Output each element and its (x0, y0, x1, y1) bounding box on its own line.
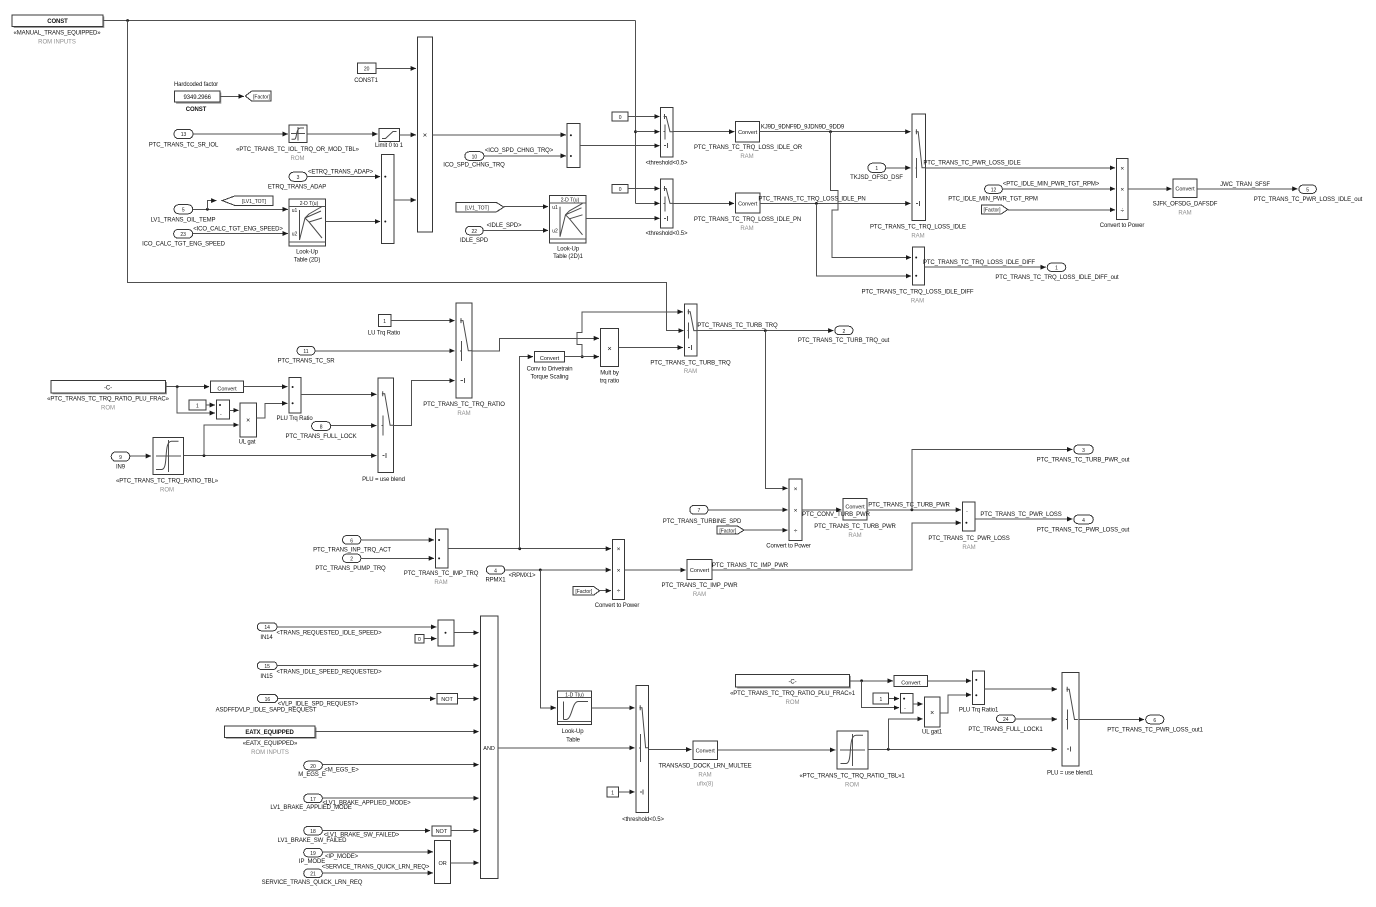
svg-text:«MANUAL_TRANS_EQUIPPED»: «MANUAL_TRANS_EQUIPPED» (14, 31, 102, 37)
svg-text:<IP_MODE>: <IP_MODE> (325, 854, 359, 860)
sum (requested idle) (438, 620, 454, 646)
wire port24 to blend1 mid (1015, 718, 1057, 720)
lookup ROM PTC_TRANS_TC_IOL_TRQ_OR_MOD_TBL (236, 125, 360, 162)
constant 20 CONST1 (354, 63, 378, 84)
svg-text:÷: ÷ (617, 588, 621, 595)
wire switch2 to Convert2 (673, 202, 734, 204)
goto tag [LV1_TOT] (222, 196, 273, 206)
Convert (plu frac) (211, 381, 244, 393)
svg-text:RAM: RAM (693, 592, 706, 598)
wire Conv2DT out to Mult bottom (565, 356, 600, 358)
svg-text:8: 8 (320, 425, 323, 431)
svg-text:AND: AND (483, 746, 495, 752)
wire factor to CtP divide (1008, 209, 1115, 211)
wire Convert7 out to PLU Trq Ratio1 top (928, 680, 972, 682)
wire RAM switch out to Mult top (472, 338, 599, 351)
wire UL gat out to PLU Trq Ratio (256, 403, 287, 418)
wire 0 to switch1 (628, 116, 659, 118)
svg-text:20: 20 (310, 764, 316, 770)
svg-text:[LV1_TOT]: [LV1_TOT] (242, 199, 267, 205)
svg-text:Torque Scaling: Torque Scaling (530, 375, 568, 381)
wire port17 to AND (322, 797, 478, 799)
svg-text:SJFK_OFSDG_DAFSDF: SJFK_OFSDG_DAFSDF (1153, 202, 1218, 208)
wire port11 to RAM switch mid (315, 350, 455, 352)
svg-text:Convert: Convert (540, 356, 560, 362)
svg-text:2-D T(u): 2-D T(u) (561, 197, 580, 203)
svg-text:UL gat1: UL gat1 (922, 729, 943, 735)
svg-text:<TRANS_IDLE_SPEED_REQUESTED>: <TRANS_IDLE_SPEED_REQUESTED> (276, 670, 382, 676)
svg-text:TRANSASD_DOCK_LRN_MULTEE: TRANSASD_DOCK_LRN_MULTEE (658, 764, 751, 770)
input port 1 TKJSD_OFSD_DSF (850, 163, 903, 181)
wire ROM tbl out to blend bottom with branch to UL gat (184, 455, 377, 457)
svg-text:PTC_TRANS_INP_TRQ_ACT: PTC_TRANS_INP_TRQ_ACT (313, 548, 391, 554)
wire port13 to ROM table (193, 133, 288, 135)
svg-text:RPMX1: RPMX1 (485, 577, 506, 583)
Convert TRANSASD_DOCK_LRN_MULTEE RAM (658, 741, 751, 788)
wire NOT2 to AND (451, 830, 479, 832)
wire Convert5 out to subtract plus, label (712, 523, 961, 570)
svg-text:4: 4 (1082, 518, 1085, 524)
svg-text:RAM: RAM (911, 234, 924, 240)
wire Convert2 to IDLE switch bottom, label (760, 202, 911, 204)
svg-text:<SERVICE_TRANS_QUICK_LRN_REQ>: <SERVICE_TRANS_QUICK_LRN_REQ> (322, 865, 430, 871)
svg-text:1: 1 (611, 790, 614, 796)
subtract PTC_TRANS_TC_PWR_LOSS RAM (928, 502, 1009, 551)
svg-text:×: × (617, 568, 621, 575)
svg-text:<threshold<0.5>: <threshold<0.5> (646, 160, 688, 166)
constant 1 (UL1) (873, 693, 888, 704)
wire port15 to AND (277, 665, 479, 667)
svg-text:PTC_TRANS_TC_IMP_PWR: PTC_TRANS_TC_IMP_PWR (712, 563, 789, 569)
sum PLU Trq Ratio1 (959, 671, 999, 713)
svg-text:u1: u1 (552, 205, 558, 211)
svg-text:0: 0 (619, 115, 622, 121)
svg-text:PTC_TRANS_TC_TRQ_LOSS_IDLE_PN: PTC_TRANS_TC_TRQ_LOSS_IDLE_PN (758, 196, 865, 202)
svg-text:Table (2D): Table (2D) (294, 257, 321, 263)
wire CtP to Convert SJFK (1128, 188, 1171, 190)
wire -C- to Convert and branch to sum (166, 386, 210, 388)
svg-text:<threshold<0.5>: <threshold<0.5> (622, 817, 664, 823)
Convert (plu frac 1) (894, 675, 928, 686)
svg-text:trq ratio: trq ratio (600, 379, 620, 385)
svg-text:×: × (246, 418, 250, 425)
product Convert to Power (idle) (1100, 158, 1145, 228)
wire CtP turb to Convert4, label (802, 509, 841, 511)
svg-text:LU Trq Ratio: LU Trq Ratio (368, 331, 401, 337)
svg-text:PTC_TRANS_TC_PWR_LOSS_out1: PTC_TRANS_TC_PWR_LOSS_out1 (1107, 727, 1203, 733)
wire -C-1 to Convert7 with branch to sum (849, 680, 892, 682)
svg-text:PLU Trq Ratio: PLU Trq Ratio (276, 416, 313, 422)
svg-text:Convert: Convert (738, 130, 758, 136)
input port 21 (262, 865, 430, 886)
svg-text:7: 7 (698, 508, 701, 514)
wire NOT1 to AND (457, 698, 478, 700)
wire blend1 out to output port 6 (1079, 719, 1144, 721)
switch threshold<0.5 (lower) (646, 179, 688, 237)
svg-text:PTC_TRANS_TC_PWR_LOSS: PTC_TRANS_TC_PWR_LOSS (980, 512, 1061, 518)
input port 11 (278, 346, 336, 364)
svg-text:PTC_TRANS_TC_TRQ_RATIO: PTC_TRANS_TC_TRQ_RATIO (423, 402, 505, 408)
wire DIFF out to output port 1, label (925, 266, 1046, 268)
svg-text:Convert to Power: Convert to Power (595, 603, 640, 609)
svg-text:-C-: -C- (789, 679, 797, 685)
svg-text:u1: u1 (292, 208, 298, 214)
wire 20 to product (376, 67, 416, 69)
svg-text:6: 6 (1153, 718, 1156, 724)
merge/product block (567, 124, 580, 168)
svg-text:23: 23 (180, 232, 186, 238)
input port 3 (268, 172, 326, 191)
wire port16 to NOT1 (278, 698, 436, 700)
goto tag [Factor] (245, 91, 271, 101)
svg-text:<ICO_CALC_TGT_ENG_SPEED>: <ICO_CALC_TGT_ENG_SPEED> (193, 227, 283, 233)
svg-text:PTC_TRANS_TC_TURB_PWR: PTC_TRANS_TC_TURB_PWR (814, 524, 896, 530)
output port 5 (1254, 185, 1363, 203)
wire riser with hop to TURB switch top (577, 312, 683, 357)
svg-text:ufix(8): ufix(8) (697, 782, 714, 788)
svg-text:21: 21 (310, 872, 316, 878)
svg-text:<threshold<0.5>: <threshold<0.5> (646, 231, 688, 237)
wire 1 to sumF (889, 698, 900, 700)
from tag [Factor] (imp) (573, 586, 600, 595)
lookup table (2D) #1 (289, 199, 325, 263)
constant 9349.2966 (174, 82, 221, 113)
input port 15 (257, 662, 382, 680)
svg-text:IDLE_SPD: IDLE_SPD (460, 238, 489, 244)
svg-text:ICO_SPD_CHNG_TRQ: ICO_SPD_CHNG_TRQ (443, 163, 505, 169)
svg-text:×: × (617, 546, 621, 553)
svg-text:Look-Up: Look-Up (562, 729, 585, 735)
wire port19 to OR (322, 851, 433, 853)
logic NOT (vlp) (437, 693, 457, 704)
svg-text:1: 1 (875, 166, 878, 172)
svg-text:16: 16 (265, 697, 271, 703)
svg-text:3: 3 (297, 175, 300, 181)
svg-text:ROM: ROM (101, 405, 115, 411)
svg-text:Convert: Convert (690, 568, 710, 574)
input port 19 (299, 848, 359, 865)
svg-text:ETRQ_TRANS_ADAP: ETRQ_TRANS_ADAP (268, 185, 326, 191)
svg-text:9349.2966: 9349.2966 (184, 95, 212, 101)
wire sum out to AND (454, 632, 479, 634)
product Convert to Power (imp) (595, 539, 640, 609)
svg-text:Look-Up: Look-Up (296, 250, 319, 256)
svg-text:RAM: RAM (434, 580, 447, 586)
output port 6 (1107, 715, 1203, 733)
svg-text:<TRANS_REQUESTED_IDLE_SPEED>: <TRANS_REQUESTED_IDLE_SPEED> (276, 631, 382, 637)
svg-text:PTC_TRANS_TC_TURB_TRQ: PTC_TRANS_TC_TURB_TRQ (697, 323, 778, 329)
constant 0 (idle spd) (415, 634, 424, 643)
sum block A (382, 155, 394, 244)
constant EATX_EQUIPPED (224, 726, 316, 756)
svg-text:5: 5 (182, 208, 185, 214)
svg-text:PLU Trq Ratio1: PLU Trq Ratio1 (959, 707, 999, 713)
product UL gat1 (922, 697, 943, 736)
svg-text:«PTC_TRANS_TC_IOL_TRQ_OR_MOD_T: «PTC_TRANS_TC_IOL_TRQ_OR_MOD_TBL» (236, 147, 360, 153)
svg-text:IN15: IN15 (260, 674, 273, 680)
svg-text:PTC_TRANS_TC_PWR_LOSS_out: PTC_TRANS_TC_PWR_LOSS_out (1037, 528, 1130, 534)
svg-text:ROM: ROM (786, 700, 800, 706)
wire PLU Trq Ratio out to blend top (301, 393, 376, 395)
svg-text:RAM: RAM (740, 154, 753, 160)
Convert PTC_TRANS_TC_TURB_PWR RAM (802, 499, 896, 539)
wire port20 to AND (322, 764, 478, 766)
svg-text:CONST: CONST (186, 107, 207, 113)
wire sum out to CtP imp, branch riser to Conv2DT (448, 548, 611, 550)
svg-text:5: 5 (1306, 188, 1309, 194)
svg-text:×: × (930, 710, 934, 717)
svg-text:6: 6 (350, 538, 353, 544)
wire CtP imp to Convert5 (625, 569, 686, 571)
wire port8 to blend mid (331, 425, 377, 427)
constant 1 (UL) (189, 400, 206, 410)
svg-text:PTC_TRANS_TC_TRQ_LOSS_IDLE_OR: PTC_TRANS_TC_TRQ_LOSS_IDLE_OR (694, 145, 803, 151)
svg-text:CONST1: CONST1 (354, 78, 378, 84)
svg-text:EATX_EQUIPPED: EATX_EQUIPPED (245, 730, 294, 736)
input port 5 (151, 205, 216, 224)
svg-text:11: 11 (303, 349, 308, 355)
svg-text:2-D T(u): 2-D T(u) (300, 201, 319, 207)
svg-text:<IDLE_SPD>: <IDLE_SPD> (487, 223, 522, 229)
svg-text:1: 1 (383, 319, 386, 325)
svg-text:CONST: CONST (47, 19, 68, 25)
svg-text:PTC_TRANS_TC_PWR_LOSS_IDLE: PTC_TRANS_TC_PWR_LOSS_IDLE (923, 160, 1020, 166)
svg-text:Convert to Power: Convert to Power (1100, 223, 1145, 229)
svg-text:PLU = use blend1: PLU = use blend1 (1047, 770, 1094, 776)
svg-text:Convert: Convert (845, 505, 865, 511)
svg-text:15: 15 (264, 664, 270, 670)
svg-text:3: 3 (1082, 448, 1085, 454)
Convert (TRQ_LOSS_IDLE_OR RAM) (694, 122, 803, 161)
svg-text:PTC_TRANS_TC_PWR_LOSS: PTC_TRANS_TC_PWR_LOSS (928, 536, 1009, 542)
svg-text:RAM: RAM (848, 533, 861, 539)
svg-text:Conv to Drivetrain: Conv to Drivetrain (527, 367, 573, 373)
svg-text:PTC_TRANS_TC_TRQ_LOSS_IDLE_DIF: PTC_TRANS_TC_TRQ_LOSS_IDLE_DIFF (923, 260, 1035, 266)
svg-text:«PTC_TRANS_TC_TRQ_RATIO_PLU_FR: «PTC_TRANS_TC_TRQ_RATIO_PLU_FRAC»1 (730, 691, 856, 697)
wire CONST left drop to TURB switch control (128, 21, 684, 331)
input port 16 (216, 694, 359, 713)
svg-text:Table: Table (566, 738, 581, 744)
svg-text:24: 24 (1003, 717, 1009, 723)
wire ROM tbl1 out to blend1 bottom with branch to UL gat1 (868, 748, 1057, 750)
svg-text:LV1_BRAKE_SW_FAILED: LV1_BRAKE_SW_FAILED (278, 838, 347, 844)
wire port22 to lookup2 u2, label (483, 229, 548, 231)
input port 24 (968, 715, 1043, 733)
svg-text:<VLP_IDLE_SPD_REQUEST>: <VLP_IDLE_SPD_REQUEST> (278, 702, 359, 708)
wire AND out to TRANSASD switch (498, 747, 635, 749)
Convert PTC_TRANS_TC_IMP_PWR RAM (662, 559, 739, 598)
svg-text:Limit 0 to 1: Limit 0 to 1 (375, 143, 404, 149)
wire Limit to product (399, 134, 416, 136)
product (tall multiply) (417, 37, 432, 232)
svg-text:PTC_TRANS_TC_TRQ_LOSS_IDLE_PN: PTC_TRANS_TC_TRQ_LOSS_IDLE_PN (694, 217, 801, 223)
svg-text:×: × (1120, 186, 1124, 193)
switch PTC_TRANS_TC_TRQ_LOSS_IDLE (870, 114, 966, 239)
svg-text:ROM: ROM (845, 783, 859, 789)
svg-text:UL gat: UL gat (239, 440, 256, 446)
wire lookup2 out to switch2 (586, 217, 660, 219)
svg-text:PTC_TRANS_TC_TURB_PWR_out: PTC_TRANS_TC_TURB_PWR_out (1037, 458, 1130, 464)
switch threshold<0.5 (lrn) (622, 685, 664, 823)
svg-text:PTC_TRANS_TC_PWR_LOSS_IDLE_out: PTC_TRANS_TC_PWR_LOSS_IDLE_out (1254, 197, 1363, 203)
product Mult by trq ratio (600, 329, 620, 385)
wire EATX to AND (315, 731, 479, 733)
input port 22 (460, 226, 489, 244)
svg-text:4: 4 (494, 568, 497, 574)
svg-text:Mult by: Mult by (600, 371, 619, 377)
saturation Limit 0 to 1 (375, 128, 404, 149)
wire port2 to sum (361, 557, 434, 559)
svg-text:PTC_TRANS_TURBINE_SPD: PTC_TRANS_TURBINE_SPD (663, 519, 742, 525)
svg-text:PTC_TRANS_TC_IMP_PWR: PTC_TRANS_TC_IMP_PWR (662, 583, 739, 589)
svg-text:Convert: Convert (738, 201, 758, 207)
wire port21 to OR (322, 872, 433, 874)
wire LU const to RAM switch top (391, 320, 455, 322)
wire port1 to IDLE switch control (886, 167, 911, 169)
svg-text:Hardcoded factor: Hardcoded factor (174, 82, 218, 88)
wire Convert out to PLU Trq Ratio top (244, 386, 288, 388)
wire TURB out to port 2, label (697, 330, 833, 332)
svg-text:17: 17 (310, 797, 316, 803)
from tag [Factor] (idle) (981, 205, 1008, 214)
svg-text:LV1_TRANS_OIL_TEMP: LV1_TRANS_OIL_TEMP (151, 217, 216, 223)
wire sumA out to product (394, 199, 416, 201)
svg-text:RAM: RAM (1178, 211, 1191, 217)
svg-text:<LV1_BRAKE_SW_FAILED>: <LV1_BRAKE_SW_FAILED> (324, 833, 400, 839)
svg-text:[LV1_TOT]: [LV1_TOT] (465, 205, 490, 211)
input port 2 (315, 554, 386, 572)
wire Convert to output port 5, label (1197, 188, 1298, 190)
wire CONST to switches (top run) (103, 20, 636, 22)
svg-text:RAM: RAM (911, 298, 924, 304)
wire factor to CtP imp divide (600, 590, 611, 592)
svg-text:22: 22 (472, 229, 478, 235)
svg-text:RAM: RAM (740, 226, 753, 232)
logic AND (480, 616, 497, 878)
svg-text:«PTC_TRANS_TC_TRQ_RATIO_TBL»1: «PTC_TRANS_TC_TRQ_RATIO_TBL»1 (799, 774, 905, 780)
input port 7 (663, 505, 742, 525)
svg-text:<RPMX1>: <RPMX1> (509, 573, 536, 579)
svg-text:<LV1_BRAKE_APPLIED_MODE>: <LV1_BRAKE_APPLIED_MODE> (322, 800, 411, 806)
svg-text:Convert to Power: Convert to Power (766, 544, 811, 550)
constant 0 (lower) (612, 185, 628, 194)
svg-text:Convert: Convert (217, 386, 237, 392)
svg-text:PTC_TRANS_PUMP_TRQ: PTC_TRANS_PUMP_TRQ (315, 566, 386, 572)
wire KJ9D branch down with jog to DIFF sum (831, 132, 912, 258)
wire switch1 to Convert1 (673, 131, 734, 133)
svg-text:<ICO_SPD_CHNG_TRQ>: <ICO_SPD_CHNG_TRQ> (485, 148, 554, 154)
svg-text:TKJSD_OFSD_DSF: TKJSD_OFSD_DSF (850, 175, 903, 181)
svg-text:PTC_TRANS_FULL_LOCK1: PTC_TRANS_FULL_LOCK1 (968, 727, 1043, 733)
svg-text:12: 12 (991, 188, 997, 194)
svg-text:PTC_TRANS_TC_TRQ_LOSS_IDLE_DIF: PTC_TRANS_TC_TRQ_LOSS_IDLE_DIFF_out (995, 275, 1119, 281)
svg-text:Convert: Convert (1175, 187, 1195, 193)
svg-text:ICO_CALC_TGT_ENG_SPEED: ICO_CALC_TGT_ENG_SPEED (142, 242, 226, 248)
input port 20 (298, 761, 359, 778)
svg-text:IN9: IN9 (116, 465, 126, 471)
svg-text:M_EGS_E: M_EGS_E (298, 772, 326, 778)
from tag [Factor] (turb) (717, 526, 744, 534)
svg-text:PTC_TRANS_TC_TRQ_LOSS_IDLE: PTC_TRANS_TC_TRQ_LOSS_IDLE (870, 225, 966, 231)
Conv to Drivetrain Convert (527, 351, 573, 380)
wire ROM to Limit (307, 133, 378, 135)
svg-text:PTC_TRANS_TC_IMP_TRQ: PTC_TRANS_TC_IMP_TRQ (404, 571, 479, 577)
constant -C-1 PTC_TRANS_TC_TRQ_RATIO_PLU_FRAC1 (730, 674, 856, 706)
svg-text:9: 9 (119, 455, 122, 461)
wire 1 to switch bottom (618, 791, 634, 793)
sum PTC_TRANS_TC_TRQ_LOSS_IDLE_DIFF RAM (862, 247, 974, 304)
switch PLU = use blend1 (1047, 672, 1094, 776)
wire into threshold switch 2 control (636, 202, 660, 204)
svg-text:u2: u2 (292, 232, 298, 238)
sum PLU Trq Ratio (276, 377, 313, 421)
svg-text:Look-Up: Look-Up (557, 246, 580, 252)
svg-text:ROM: ROM (291, 156, 305, 162)
constant 1 LU Trq Ratio (368, 314, 401, 336)
svg-text:×: × (794, 486, 798, 493)
input port 4 RPMX1 (485, 566, 536, 584)
constant 0 (top) (612, 112, 628, 121)
svg-text:[Factor]: [Factor] (984, 208, 1002, 214)
wire port7 to CtP turb (708, 509, 788, 511)
wire port10 to merge, label (484, 155, 566, 157)
svg-text:-C-: -C- (104, 385, 112, 391)
svg-text:19: 19 (310, 851, 316, 857)
svg-text:RAM: RAM (457, 411, 470, 417)
wire Convert6 to ROM tbl1 (718, 749, 836, 751)
input port 12 (948, 185, 1038, 202)
svg-text:<M_EGS_E>: <M_EGS_E> (324, 768, 359, 774)
lookup ROM PTC_TRANS_TC_TRQ_RATIO_TBL1 (799, 731, 905, 789)
svg-text:PTC_TRANS_TC_TURB_TRQ: PTC_TRANS_TC_TURB_TRQ (650, 360, 731, 366)
wire Convert1 to IDLE switch, label KJ9D (760, 131, 911, 133)
wire PLU Trq Ratio1 out to blend1 top (984, 688, 1057, 690)
output port 2 (798, 326, 890, 344)
output port 3 (1037, 445, 1130, 464)
wire TURB_PWR branch up to output port 3 (912, 449, 1072, 509)
svg-text:1: 1 (196, 403, 199, 409)
sum PTC_TRANS_TC_IMP_TRQ RAM (404, 529, 479, 586)
svg-text:«PTC_TRANS_TC_TRQ_RATIO_PLU_FR: «PTC_TRANS_TC_TRQ_RATIO_PLU_FRAC» (47, 397, 169, 403)
constant 1 (lrn) (607, 787, 618, 797)
wire sumF to UL gat1 (913, 703, 923, 705)
svg-text:OR: OR (438, 861, 446, 867)
svg-text:1-D T(u): 1-D T(u) (565, 692, 584, 698)
svg-text:RAM: RAM (698, 773, 711, 779)
wire port18 to NOT2 (322, 830, 430, 832)
wire blend out to RAM switch bottom (394, 381, 455, 426)
wire sum to UL gat (230, 409, 239, 411)
wire factor to CtP turb divide (744, 529, 788, 531)
svg-text:13: 13 (181, 132, 187, 138)
svg-text:RAM: RAM (684, 369, 697, 375)
logic OR (435, 841, 451, 884)
wire Mult out to TURB switch bottom (619, 347, 683, 349)
svg-text:ASDFFDVLP_IDLE_SAPD_REQUEST: ASDFFDVLP_IDLE_SAPD_REQUEST (216, 707, 317, 713)
svg-text:PLU = use blend: PLU = use blend (362, 477, 405, 483)
svg-text:PTC_TRANS_TC_TRQ_LOSS_IDLE_DIF: PTC_TRANS_TC_TRQ_LOSS_IDLE_DIFF (862, 289, 974, 295)
svg-text:SERVICE_TRANS_QUICK_LRN_REQ: SERVICE_TRANS_QUICK_LRN_REQ (262, 880, 363, 886)
svg-text:2: 2 (350, 557, 353, 563)
svg-text:1: 1 (880, 697, 883, 703)
wire port3 to sum, label (307, 176, 380, 178)
output port 1 (995, 263, 1119, 281)
svg-text:10: 10 (472, 155, 478, 161)
svg-text:«PTC_TRANS_TC_TRQ_RATIO_TBL»: «PTC_TRANS_TC_TRQ_RATIO_TBL» (116, 479, 219, 485)
wire port5 to lookup u1 with branch to goto LV1_TOT (193, 208, 288, 210)
svg-text:Table (2D)1: Table (2D)1 (553, 254, 583, 260)
svg-text:PTC_IDLE_MIN_PWR_TGT_RPM: PTC_IDLE_MIN_PWR_TGT_RPM (948, 196, 1038, 202)
